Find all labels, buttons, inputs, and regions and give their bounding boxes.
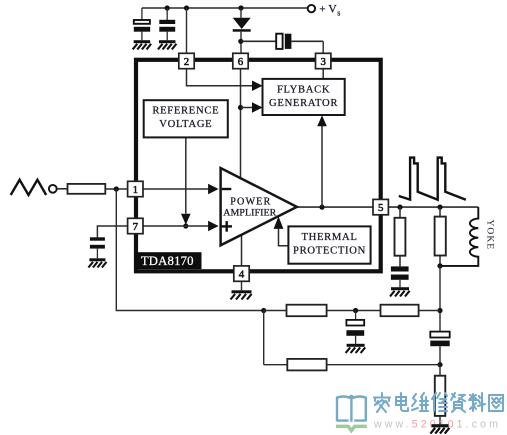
svg-text:1: 1 xyxy=(133,184,138,196)
svg-text:s: s xyxy=(337,8,340,17)
svg-text:GENERATOR: GENERATOR xyxy=(269,98,338,109)
svg-text:PROTECTION: PROTECTION xyxy=(293,246,366,257)
svg-text:7: 7 xyxy=(133,221,139,233)
svg-text:3: 3 xyxy=(320,56,326,68)
svg-text:YOKE: YOKE xyxy=(485,219,496,250)
svg-text:5: 5 xyxy=(378,202,384,214)
svg-text:REFERENCE: REFERENCE xyxy=(152,106,219,117)
svg-text:6: 6 xyxy=(238,56,244,68)
svg-text:AMPLIFIER: AMPLIFIER xyxy=(223,208,276,219)
svg-text:4: 4 xyxy=(239,269,245,281)
svg-text:VOLTAGE: VOLTAGE xyxy=(159,119,212,130)
svg-text:THERMAL: THERMAL xyxy=(301,232,357,243)
svg-text:+: + xyxy=(319,4,325,16)
svg-text:V: V xyxy=(328,4,337,16)
svg-text:FLYBACK: FLYBACK xyxy=(277,84,330,95)
svg-text:2: 2 xyxy=(184,56,189,68)
svg-text:TDA8170: TDA8170 xyxy=(141,254,194,268)
svg-text:POWER: POWER xyxy=(230,196,271,207)
